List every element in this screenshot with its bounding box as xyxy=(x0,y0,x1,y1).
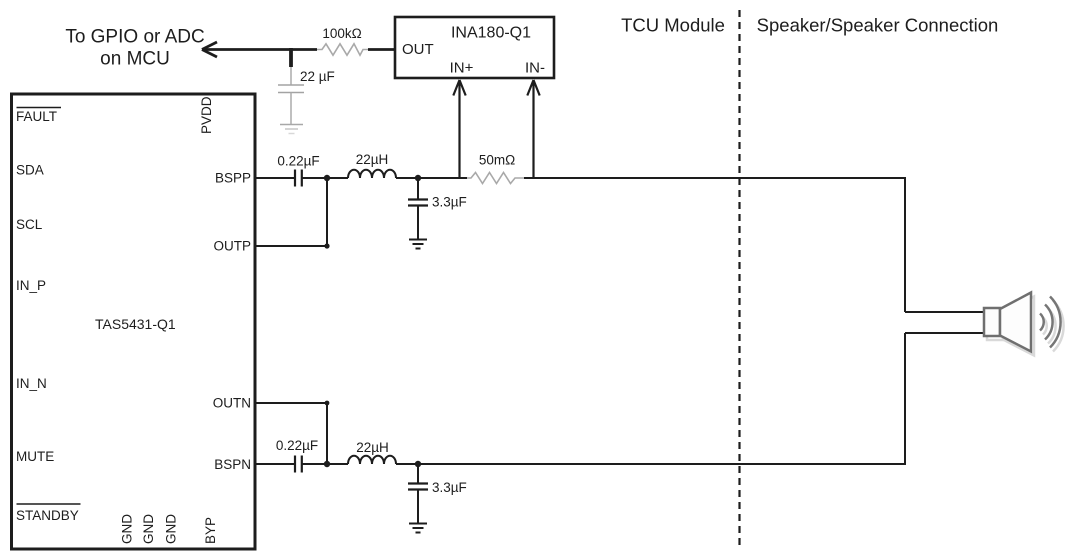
speaker sound waves xyxy=(1040,297,1061,348)
svg-text:22 µF: 22 µF xyxy=(300,69,335,84)
pin label STANDBY (active low) xyxy=(16,504,81,523)
resistor 100kΩ xyxy=(317,26,368,55)
wire inductor to sense resistor (top) xyxy=(396,177,467,179)
wire OUTP vertical to BSPP junction xyxy=(326,178,328,246)
svg-text:GND: GND xyxy=(141,514,156,544)
ground (3.3µF bottom) xyxy=(409,524,427,533)
svg-text:IN+: IN+ xyxy=(450,60,474,77)
svg-text:BSPN: BSPN xyxy=(214,457,251,472)
ground (3.3µF top) xyxy=(409,240,427,249)
svg-text:IN_N: IN_N xyxy=(16,376,47,391)
svg-text:To GPIO or ADC: To GPIO or ADC xyxy=(65,27,204,48)
svg-text:OUTN: OUTN xyxy=(213,396,251,411)
svg-text:OUTP: OUTP xyxy=(213,239,251,254)
wire inductor to speaker net (bottom) xyxy=(396,463,906,465)
svg-text:0.22µF: 0.22µF xyxy=(276,438,318,453)
pin label FAULT (active low) xyxy=(16,108,61,125)
wire resistor to INA OUT pin xyxy=(368,48,395,51)
wire BSPN pin to capacitor xyxy=(256,463,294,465)
svg-text:BSPP: BSPP xyxy=(215,171,251,186)
svg-text:GND: GND xyxy=(120,514,135,544)
wire right vertical (bottom speaker lead) xyxy=(904,333,906,464)
capacitor 0.22µF (bottom) xyxy=(276,438,318,473)
svg-text:50mΩ: 50mΩ xyxy=(479,153,515,168)
inductor 22µH (bottom) xyxy=(348,440,396,464)
svg-text:3.3µF: 3.3µF xyxy=(432,195,467,210)
svg-text:TAS5431-Q1: TAS5431-Q1 xyxy=(95,316,176,332)
node OUTN corner xyxy=(325,401,330,406)
inductor 22µH (top) xyxy=(348,152,396,178)
wire OUTN vertical to BSPN junction xyxy=(326,403,328,464)
svg-text:TCU Module: TCU Module xyxy=(621,15,725,36)
resistor 50mΩ shunt xyxy=(467,153,524,184)
arrow to MCU xyxy=(202,42,217,57)
svg-text:BYP: BYP xyxy=(203,517,218,544)
capacitor 22µF xyxy=(278,67,335,124)
node OUTP corner xyxy=(324,243,329,248)
capacitor 0.22µF (top) xyxy=(277,154,319,187)
wire IN- sense arrow xyxy=(527,80,539,178)
svg-text:22µH: 22µH xyxy=(356,440,389,455)
wire to speaker + terminal xyxy=(905,311,985,313)
IC U2 INA180-Q1 body xyxy=(395,17,554,78)
wire to speaker - terminal xyxy=(905,332,985,334)
node LC junction (bottom) xyxy=(415,461,421,467)
wire OUTN pin feedback xyxy=(256,402,327,404)
dashed TCU/Speaker divider xyxy=(738,10,740,546)
wire IN+ sense arrow xyxy=(453,80,465,178)
wire right vertical (top speaker lead) xyxy=(904,178,906,312)
wire BSPP pin to capacitor xyxy=(256,177,294,179)
svg-text:SCL: SCL xyxy=(16,217,43,232)
svg-text:3.3µF: 3.3µF xyxy=(432,480,467,495)
capacitor 3.3µF (top) xyxy=(408,178,467,239)
label To GPIO or ADC on MCU xyxy=(65,27,204,70)
svg-text:GND: GND xyxy=(164,514,179,544)
wire capacitor to inductor (top) xyxy=(302,177,348,179)
svg-text:PVDD: PVDD xyxy=(199,96,214,134)
svg-text:100kΩ: 100kΩ xyxy=(322,26,361,41)
svg-text:INA180-Q1: INA180-Q1 xyxy=(451,25,531,42)
wire OUT net (arrow to resistor) xyxy=(202,48,317,51)
wire capacitor to inductor (bottom) xyxy=(302,463,348,465)
svg-text:FAULT: FAULT xyxy=(16,109,57,124)
svg-text:OUT: OUT xyxy=(402,41,434,58)
node LC junction (top) xyxy=(415,175,421,181)
svg-text:MUTE: MUTE xyxy=(16,449,54,464)
svg-text:Speaker/Speaker Connection: Speaker/Speaker Connection xyxy=(757,15,999,36)
capacitor 3.3µF (bottom) xyxy=(408,464,467,523)
speaker shadow xyxy=(987,297,1064,356)
wire OUTP pin feedback xyxy=(256,245,327,247)
wire branch stub to 22uF xyxy=(289,48,293,67)
svg-text:IN-: IN- xyxy=(525,60,545,77)
svg-text:IN_P: IN_P xyxy=(16,278,46,293)
ground (22µF) xyxy=(280,125,303,134)
node BSPN/OUTN junction (bottom) xyxy=(324,461,330,467)
svg-text:on MCU: on MCU xyxy=(100,49,170,70)
svg-text:22µH: 22µH xyxy=(356,152,389,167)
IC U1 TAS5431-Q1 body xyxy=(12,94,256,549)
speaker LS1 xyxy=(984,293,1031,352)
svg-text:SDA: SDA xyxy=(16,163,44,178)
wire sense resistor to speaker net (top) xyxy=(524,177,906,179)
svg-text:STANDBY: STANDBY xyxy=(16,508,79,523)
svg-text:0.22µF: 0.22µF xyxy=(277,154,319,169)
node BSPP/OUTP junction (top) xyxy=(324,175,330,181)
